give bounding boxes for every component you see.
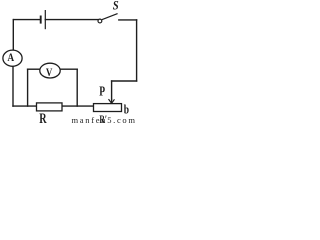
wire R to rheostat <box>62 105 94 107</box>
wire top-left horizontal <box>14 19 41 21</box>
svg-text:R′: R′ <box>99 113 107 125</box>
wire switch to top-right corner <box>119 19 137 21</box>
svg-text:b: b <box>124 103 129 117</box>
svg-text:R: R <box>39 110 47 125</box>
wire left lower vertical <box>12 66 14 106</box>
svg-text:S: S <box>113 0 119 13</box>
wire voltmeter left vertical <box>27 69 29 106</box>
wire left vertical <box>12 20 14 51</box>
wire right vertical <box>136 20 138 81</box>
ammeter A1 <box>3 50 22 66</box>
wire voltmeter right vertical <box>76 69 78 106</box>
wire voltmeter right horizontal <box>60 68 77 70</box>
voltmeter V1 <box>40 63 60 79</box>
wire bottom left <box>13 105 37 107</box>
wire battery to switch <box>45 19 98 21</box>
svg-text:P: P <box>99 83 105 99</box>
svg-text:A: A <box>7 51 14 64</box>
wire wiper vertical <box>111 81 113 100</box>
wiper arrowhead <box>109 99 114 103</box>
wire right to wiper <box>112 80 137 82</box>
svg-text:V: V <box>46 67 53 79</box>
battery cell <box>41 10 46 29</box>
switch S <box>98 14 118 23</box>
wire voltmeter left horizontal <box>28 68 41 70</box>
rheostat R2 <box>94 104 122 112</box>
resistor R <box>37 103 63 111</box>
